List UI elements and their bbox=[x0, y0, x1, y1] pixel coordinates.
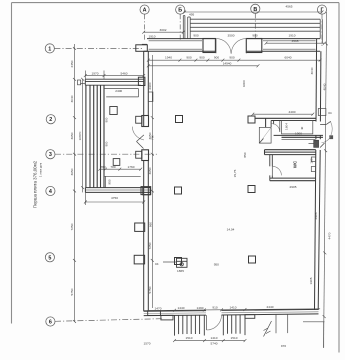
column B4 bbox=[175, 187, 182, 194]
right rooms: top room upper wall bbox=[255, 118, 316, 127]
dimension line above rooms 4400 bbox=[251, 113, 314, 116]
axis line 6 horizontal dash-dot bbox=[55, 319, 162, 322]
column bump left wall mid row bbox=[135, 223, 145, 231]
WC door leaf bbox=[271, 166, 273, 175]
entrance double door leaf right bbox=[245, 39, 247, 54]
axis bubble C bbox=[251, 4, 260, 13]
door leaf in left wall bbox=[137, 135, 144, 142]
axis line 1 horizontal dash-dot bbox=[54, 47, 143, 49]
inner cabinet box in top room bbox=[282, 121, 313, 134]
porch entrance steps top bbox=[190, 19, 322, 43]
svg-text:6: 6 bbox=[49, 320, 52, 326]
column C4 bbox=[248, 186, 255, 193]
top room door arc bbox=[271, 124, 280, 132]
svg-text:5740: 5740 bbox=[211, 341, 218, 345]
svg-text:5: 5 bbox=[48, 255, 51, 261]
svg-text:5460: 5460 bbox=[121, 71, 128, 75]
top wall left end step line bbox=[142, 43, 147, 45]
wing interior partition line bbox=[104, 88, 139, 90]
entrance double door arc left bbox=[216, 39, 231, 54]
axis bubble 2 bbox=[46, 115, 55, 124]
svg-text:1410: 1410 bbox=[211, 336, 218, 340]
door lower jamb block axis 3 bbox=[142, 150, 149, 161]
axis bubble D bbox=[317, 5, 326, 14]
svg-text:15,75: 15,75 bbox=[233, 169, 237, 177]
svg-text:2440: 2440 bbox=[267, 305, 274, 309]
svg-text:1440: 1440 bbox=[178, 306, 185, 310]
svg-text:Ж: Ж bbox=[300, 126, 304, 129]
dimension line below top wall bbox=[147, 59, 322, 68]
svg-text:ПК: ПК bbox=[151, 135, 155, 139]
svg-text:495: 495 bbox=[189, 13, 194, 17]
svg-text:4400: 4400 bbox=[289, 110, 296, 114]
svg-text:900: 900 bbox=[214, 55, 219, 59]
right exterior wall bbox=[315, 39, 321, 310]
left secondary vertical dimension line bbox=[81, 78, 84, 193]
svg-text:2905: 2905 bbox=[290, 185, 297, 189]
svg-text:2350: 2350 bbox=[70, 60, 74, 67]
svg-text:3040: 3040 bbox=[310, 67, 314, 74]
column bump axis A row 4 bbox=[141, 187, 151, 195]
wing fixture box upper bbox=[110, 107, 117, 115]
svg-text:1470: 1470 bbox=[155, 306, 162, 310]
inner vertical dimension line x152 bbox=[151, 55, 154, 308]
wing interior box right edge bbox=[138, 89, 140, 97]
top wall left end block bbox=[136, 45, 148, 52]
WC fixture lower bbox=[311, 167, 315, 172]
pump fixture near axis 5 bbox=[177, 258, 188, 267]
svg-text:4470: 4470 bbox=[328, 232, 332, 239]
svg-text:1: 1 bbox=[48, 46, 51, 52]
entrance double door arc right bbox=[231, 39, 246, 54]
bottom wall left end block bbox=[148, 311, 161, 316]
column B2 bbox=[176, 116, 183, 123]
exterior door leaf lower tick bbox=[320, 143, 324, 148]
svg-text:5750: 5750 bbox=[148, 286, 152, 293]
svg-text:900: 900 bbox=[193, 34, 198, 38]
fixture block by right wall bbox=[314, 140, 319, 147]
column bump axis A row 5 bbox=[134, 255, 144, 264]
bottom stair flight right bbox=[223, 315, 245, 336]
wing top wall left tick bbox=[80, 82, 85, 84]
bottom right dim corner bbox=[303, 322, 325, 348]
svg-text:860: 860 bbox=[149, 222, 153, 227]
bottom door arc bbox=[207, 315, 222, 330]
svg-text:7250: 7250 bbox=[70, 223, 74, 230]
dimension line top B-D bbox=[183, 11, 323, 14]
svg-text:3650: 3650 bbox=[148, 167, 152, 174]
svg-text:3650: 3650 bbox=[70, 168, 74, 175]
svg-text:780: 780 bbox=[110, 165, 115, 169]
wing inner dimension line bbox=[98, 168, 142, 171]
axis bubble 1 bbox=[45, 44, 54, 53]
svg-text:6040: 6040 bbox=[285, 55, 292, 59]
bottom dimension line above wall bbox=[144, 308, 320, 312]
svg-text:1490: 1490 bbox=[197, 306, 204, 310]
svg-text:1 этаж дом: 1 этаж дом bbox=[39, 163, 43, 177]
axis bubble A bbox=[140, 5, 149, 14]
wing lower shelf line bbox=[105, 175, 141, 177]
svg-text:160: 160 bbox=[310, 158, 314, 163]
svg-text:4: 4 bbox=[49, 189, 52, 195]
axis line D vertical dash-dot bbox=[321, 14, 323, 46]
svg-text:3500: 3500 bbox=[228, 34, 235, 38]
wing bottom dim line bbox=[84, 192, 145, 205]
svg-text:6000: 6000 bbox=[242, 80, 246, 87]
svg-text:4750: 4750 bbox=[111, 196, 118, 200]
top exterior wall bbox=[144, 39, 320, 52]
WC fixture upper bbox=[311, 157, 315, 162]
right main vertical dimension line bbox=[323, 12, 328, 348]
svg-text:900: 900 bbox=[105, 141, 109, 146]
svg-text:900: 900 bbox=[229, 55, 234, 59]
axis bubble 4 bbox=[46, 186, 55, 195]
middle room lower line bbox=[282, 138, 316, 140]
exterior door handle blob bbox=[329, 135, 333, 139]
svg-text:7250: 7250 bbox=[148, 242, 152, 249]
svg-text:970: 970 bbox=[281, 344, 286, 348]
bottom stair left side block bbox=[161, 315, 173, 320]
wall fixture left wall upper bbox=[148, 92, 153, 102]
wing fixture box lower bbox=[113, 159, 120, 166]
svg-text:950: 950 bbox=[214, 262, 219, 266]
ventilation shaft box bbox=[259, 127, 271, 143]
svg-text:14940: 14940 bbox=[223, 61, 232, 65]
exterior door arc lower bbox=[322, 137, 331, 143]
entrance right jamb column bbox=[246, 39, 261, 53]
svg-text:1410: 1410 bbox=[230, 306, 237, 310]
stair bottom dim line bbox=[173, 339, 246, 342]
svg-text:6900: 6900 bbox=[148, 82, 152, 89]
WC left wall bbox=[270, 155, 273, 181]
axis bubble 6 bbox=[46, 317, 55, 326]
axis line B vertical dash-dot bbox=[179, 14, 181, 40]
left exterior wall of main hall bbox=[144, 51, 149, 311]
WC top wall band bbox=[265, 150, 316, 155]
exterior door leaf upper part2 bbox=[326, 121, 331, 124]
wing top wall left end block bbox=[78, 80, 81, 85]
svg-text:900: 900 bbox=[105, 117, 109, 122]
column B5 bbox=[175, 258, 182, 265]
svg-text:1910: 1910 bbox=[149, 34, 156, 38]
svg-text:WC: WC bbox=[293, 160, 298, 168]
svg-text:1510: 1510 bbox=[231, 336, 238, 340]
door jamb block in left wall bbox=[142, 116, 149, 127]
svg-text:850: 850 bbox=[243, 152, 247, 157]
porch side wall verticals bbox=[183, 16, 190, 39]
svg-text:04: 04 bbox=[328, 111, 332, 115]
wing top wall end block bbox=[138, 77, 145, 85]
svg-text:Перша плита 376,00м2: Перша плита 376,00м2 bbox=[33, 160, 38, 208]
wing top dimension line bbox=[84, 71, 145, 80]
svg-text:950: 950 bbox=[108, 179, 112, 184]
svg-text:3040: 3040 bbox=[70, 95, 74, 102]
pump fixture tail line bbox=[163, 261, 177, 263]
top wall inner face lines bbox=[149, 41, 316, 49]
entrance left jamb column bbox=[203, 39, 215, 53]
wing interior shelf line bbox=[106, 96, 138, 98]
dimension line above top wall A-B bbox=[142, 31, 184, 34]
svg-text:3650: 3650 bbox=[70, 132, 74, 139]
svg-text:900: 900 bbox=[252, 34, 257, 38]
axis bubble 5 bbox=[45, 253, 54, 262]
column bump axis 3 bbox=[136, 151, 142, 158]
svg-text:1910: 1910 bbox=[289, 34, 296, 38]
svg-text:1940: 1940 bbox=[165, 55, 172, 59]
wing top wall bbox=[85, 79, 143, 85]
svg-text:4565: 4565 bbox=[292, 39, 299, 43]
svg-text:900: 900 bbox=[199, 55, 204, 59]
slope arrow at bottom right of stairs bbox=[264, 321, 272, 337]
wing stair ramp hatch lines bbox=[86, 85, 104, 187]
svg-text:1604: 1604 bbox=[285, 123, 289, 130]
wing lower shelf vertical bbox=[104, 176, 106, 187]
svg-text:5750: 5750 bbox=[70, 288, 74, 295]
svg-text:10870: 10870 bbox=[78, 131, 82, 140]
svg-text:910: 910 bbox=[212, 306, 217, 310]
svg-text:3: 3 bbox=[49, 152, 52, 158]
axis bubble 3 bbox=[46, 150, 55, 159]
column C2 bbox=[248, 116, 255, 123]
svg-text:04: 04 bbox=[155, 262, 159, 266]
exterior door leaf upper part1 bbox=[320, 123, 326, 125]
svg-text:3002: 3002 bbox=[160, 28, 167, 32]
fixture tick bbox=[309, 143, 314, 145]
svg-text:1510: 1510 bbox=[186, 336, 193, 340]
svg-text:А: А bbox=[143, 8, 147, 14]
WC bottom wall bbox=[270, 178, 316, 181]
exterior door arc upper bbox=[331, 122, 333, 135]
dimension line right upper 4565 bbox=[265, 42, 326, 45]
svg-text:900: 900 bbox=[186, 55, 191, 59]
svg-text:4040: 4040 bbox=[322, 83, 326, 90]
svg-text:1900: 1900 bbox=[295, 131, 302, 135]
bottom door leaf bbox=[206, 315, 208, 330]
svg-text:14,04: 14,04 bbox=[227, 228, 235, 232]
svg-text:2905: 2905 bbox=[314, 212, 318, 219]
wing bottom wall end block bbox=[143, 188, 150, 195]
axis line C vertical dash-dot bbox=[254, 13, 256, 39]
dim drop line bottom x287.7 bbox=[287, 314, 289, 333]
svg-text:1970: 1970 bbox=[92, 71, 99, 75]
axis bubble B bbox=[176, 5, 185, 14]
column bump axis A row 2 bbox=[136, 116, 142, 123]
top room door leaf bbox=[279, 121, 281, 132]
left main vertical dimension line bbox=[73, 44, 76, 323]
bottom stair flight left bbox=[175, 315, 205, 336]
svg-text:1570: 1570 bbox=[144, 342, 151, 346]
svg-text:Б: Б bbox=[178, 8, 182, 14]
door arc in left wall bbox=[132, 127, 144, 140]
axis line 3 horizontal dash-dot bbox=[55, 153, 157, 155]
axis line A vertical dash-dot bbox=[144, 14, 146, 40]
svg-text:4565: 4565 bbox=[286, 5, 293, 9]
bottom stair right side block bbox=[245, 315, 255, 319]
WC door arc bbox=[272, 166, 281, 175]
shaft box outside right wall bbox=[318, 109, 326, 116]
column C5 bbox=[249, 256, 256, 263]
svg-text:1760: 1760 bbox=[128, 165, 135, 169]
svg-text:1905: 1905 bbox=[309, 277, 313, 284]
right rooms: middle wall bbox=[274, 135, 323, 137]
svg-text:2: 2 bbox=[49, 117, 52, 123]
svg-text:760: 760 bbox=[100, 165, 105, 169]
dim drop line bottom x276 bbox=[275, 314, 277, 333]
right rooms: top room left wall bbox=[271, 121, 274, 128]
entrance double door leaf left bbox=[215, 39, 217, 54]
wing bottom wall bbox=[85, 188, 150, 193]
svg-text:1865: 1865 bbox=[177, 269, 184, 273]
svg-text:2400: 2400 bbox=[115, 89, 122, 93]
bottom exterior wall bbox=[144, 309, 319, 315]
